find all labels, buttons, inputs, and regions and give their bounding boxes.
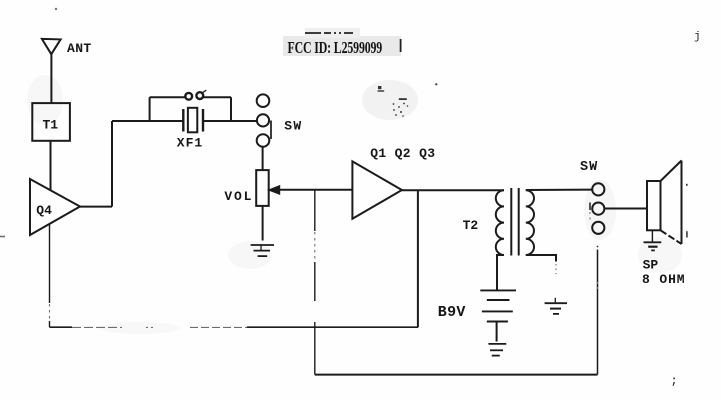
svg-text:j: j (694, 31, 701, 43)
svg-text:SW: SW (580, 160, 598, 175)
svg-text:XF1: XF1 (177, 136, 203, 151)
svg-text:;: ; (671, 374, 678, 388)
svg-text:Q4: Q4 (36, 203, 52, 218)
svg-text:T2: T2 (463, 218, 479, 233)
svg-text:SP: SP (643, 258, 659, 273)
svg-text:B9V: B9V (438, 304, 466, 321)
svg-text:Q1 Q2 Q3: Q1 Q2 Q3 (370, 146, 435, 161)
svg-text:VOL: VOL (224, 189, 253, 204)
svg-text:ANT: ANT (67, 41, 92, 56)
svg-text:T1: T1 (43, 118, 59, 133)
svg-text:8 OHM: 8 OHM (642, 272, 686, 287)
svg-text:SW: SW (284, 118, 302, 133)
svg-text:FCC ID: L2599099: FCC ID: L2599099 (288, 39, 383, 57)
